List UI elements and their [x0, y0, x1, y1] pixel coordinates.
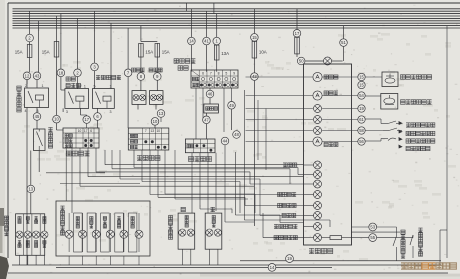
wire node47 down — [205, 124, 207, 139]
svg-text:17: 17 — [84, 129, 88, 133]
relay K2 box — [65, 89, 89, 109]
node 17 — [83, 116, 91, 124]
wire node45 to fog switch — [36, 121, 38, 130]
svg-text:50: 50 — [299, 59, 304, 64]
node 19 on bus — [286, 255, 294, 263]
svg-text:10: 10 — [78, 129, 82, 133]
label temp gauge — [324, 142, 338, 146]
fog switch S1 contact — [37, 129, 43, 151]
label brake fluid switch — [406, 139, 435, 143]
label left fog lamp vertical — [4, 216, 8, 236]
label fog relay vertical — [17, 86, 21, 112]
svg-text:1: 1 — [84, 84, 86, 88]
node 14 on bus — [268, 264, 276, 272]
svg-text:51: 51 — [341, 40, 346, 45]
wires front lamps to bus — [69, 256, 139, 265]
label combination meter — [309, 248, 333, 253]
node 6 — [94, 113, 102, 121]
hazard table wires down — [196, 88, 232, 139]
wire fuse F1 drop — [29, 11, 31, 44]
label F4 15A — [162, 50, 170, 55]
headlamp HL2 box — [150, 91, 164, 105]
label headlamp relay1 — [96, 75, 121, 80]
node 53 — [369, 223, 377, 231]
headlamp HL1 box — [132, 91, 146, 105]
svg-text:19: 19 — [359, 106, 364, 111]
svg-text:15: 15 — [252, 35, 257, 40]
fuse F1 15A — [27, 44, 32, 58]
wire node50 to lamp — [305, 60, 323, 62]
wire K1 pin4 down-left — [26, 108, 28, 266]
svg-text:48: 48 — [234, 132, 239, 137]
svg-text:45: 45 — [35, 114, 40, 119]
svg-text:15A: 15A — [162, 50, 170, 55]
svg-text:54: 54 — [359, 93, 364, 98]
wire right edge vertical — [440, 26, 447, 265]
node 41 — [203, 37, 211, 45]
relay K3 contact — [96, 92, 101, 104]
wire node2b to K2 — [77, 77, 79, 89]
wire F5 down — [216, 60, 218, 72]
label turn switch — [189, 157, 212, 162]
wire node8 to lamp — [140, 81, 142, 91]
corner smudge — [0, 225, 9, 279]
front lamps L5-L10 — [65, 213, 143, 252]
wire fuse F2 drop — [56, 16, 58, 42]
svg-text:10: 10 — [157, 129, 161, 133]
svg-text:7: 7 — [145, 129, 147, 133]
svg-text:18: 18 — [59, 70, 64, 75]
fog lamps L1-L4 — [16, 217, 48, 248]
wire node43 to relay pin1 — [36, 80, 38, 88]
node 7 — [124, 69, 132, 77]
node 46 — [206, 90, 214, 98]
fuse F4 15A — [155, 43, 160, 58]
wire F6 to node43b — [253, 58, 255, 73]
resistor R1 — [322, 236, 352, 240]
node 13 — [27, 185, 35, 193]
relay K2 pins — [66, 84, 86, 114]
node 55 — [369, 234, 377, 242]
node 1t — [213, 37, 221, 45]
wire node12 to relay pin2 — [26, 80, 28, 88]
label left headlamp — [132, 68, 145, 72]
wire 17 stub — [86, 114, 88, 117]
label hazard switch — [174, 59, 195, 71]
wire to node 13 — [30, 151, 32, 186]
bottom ground bus lines — [8, 261, 448, 273]
svg-text:13A: 13A — [221, 51, 229, 56]
wire 53 to level switch — [377, 227, 397, 236]
combination meter box — [304, 64, 352, 245]
label water level switch vertical — [418, 228, 422, 256]
wire bus to node51 — [343, 26, 345, 39]
svg-text:5: 5 — [94, 84, 96, 88]
svg-text:10: 10 — [153, 119, 158, 124]
label fog switch vertical — [48, 128, 52, 149]
wire bus to node 3 — [94, 11, 96, 63]
relay K3 box — [93, 89, 115, 109]
svg-text:10A: 10A — [259, 50, 267, 55]
wire node41 down — [206, 45, 208, 72]
wire bus to node17t — [296, 9, 298, 30]
label left turn ind — [278, 203, 297, 207]
wire node3 to K3 — [94, 71, 96, 89]
label F6 10A — [259, 50, 267, 55]
front lamp cluster outer box — [56, 201, 150, 256]
fuel sensor box — [381, 94, 398, 110]
label F2 15A — [42, 50, 50, 55]
label L header — [181, 207, 185, 211]
label right headlamp — [149, 68, 162, 72]
wires fog lamps to bus — [20, 255, 45, 265]
svg-text:6: 6 — [90, 129, 92, 133]
meter indicator lamps — [304, 161, 322, 242]
node 14t — [188, 37, 196, 45]
wire F3 to node8 — [140, 57, 142, 73]
node 10 — [53, 115, 61, 123]
wire HL1 down — [137, 104, 139, 109]
label water level ind — [274, 224, 297, 228]
node 9 — [154, 73, 162, 81]
light switch S2 contact table — [63, 128, 99, 148]
label water temp sensor — [406, 146, 430, 150]
svg-text:56: 56 — [359, 139, 364, 144]
svg-text:2: 2 — [25, 84, 27, 88]
wire node9 to lamp — [156, 81, 158, 91]
wire bus to fuse F3 F4 tee — [141, 26, 157, 42]
wire 55 to water switch — [377, 235, 413, 238]
wire bus to K3 pin1 — [110, 23, 112, 88]
label fuel gauge — [324, 91, 338, 95]
svg-text:41: 41 — [204, 39, 209, 44]
wires turn lamps to bus — [182, 249, 218, 265]
label front lamps vertical — [60, 206, 64, 235]
svg-text:47: 47 — [204, 117, 209, 122]
node 43b — [251, 73, 259, 81]
svg-text:17: 17 — [84, 117, 89, 122]
relay K2 coil — [76, 96, 84, 108]
svg-text:2: 2 — [79, 84, 81, 88]
node 2b — [74, 69, 82, 77]
label odometer sensor — [401, 75, 432, 80]
node 50 — [297, 57, 305, 65]
svg-text:15A: 15A — [42, 50, 50, 55]
fuse F2 15A — [54, 41, 59, 58]
wire F4 to node9 — [156, 57, 158, 73]
svg-text:15: 15 — [359, 74, 364, 79]
wire lamp53 — [322, 226, 369, 229]
wire lamp55 — [352, 237, 369, 239]
relay K2 bottom stubs — [63, 108, 87, 115]
wire node51 down — [343, 47, 345, 61]
top supply bus lines — [13, 9, 460, 28]
relay K1 coil — [36, 95, 44, 108]
node 48 — [233, 131, 241, 139]
wire bus to node 18 — [60, 14, 62, 69]
svg-text:12: 12 — [25, 73, 30, 78]
fuse F5 13A — [214, 45, 219, 61]
interior lamp — [324, 57, 332, 65]
left turn lamp box — [178, 213, 195, 249]
relay K1 switch contact — [28, 91, 33, 103]
node 3 — [91, 63, 99, 71]
wire bus to node 7 — [127, 28, 129, 69]
wire 17 to table — [86, 124, 88, 128]
turn signal switch S5 contact table — [185, 139, 215, 153]
wire node18 to relay K2 — [61, 77, 65, 90]
svg-text:3: 3 — [110, 110, 112, 114]
svg-text:15A: 15A — [145, 50, 153, 55]
svg-text:43: 43 — [252, 74, 257, 79]
wire node46 to flasher — [209, 98, 211, 104]
svg-text:8: 8 — [218, 72, 220, 76]
oil level switch — [393, 236, 397, 261]
node 51 — [340, 39, 348, 47]
wire node7 down — [127, 77, 129, 128]
wire flasher to node47 — [205, 113, 207, 116]
wire node14t down — [190, 45, 192, 72]
svg-text:14: 14 — [270, 265, 275, 270]
relay K3 coil — [103, 96, 111, 108]
wire hazard to node46 — [209, 88, 211, 90]
wire node43b long down — [253, 81, 255, 226]
label light switch — [67, 151, 90, 156]
wire F2 down — [57, 57, 64, 130]
svg-text:49: 49 — [229, 103, 234, 108]
fuse F7 — [295, 37, 300, 55]
label panel lamp — [283, 163, 297, 167]
svg-text:10: 10 — [54, 117, 59, 122]
wire pin54 to sensor2 — [365, 95, 381, 97]
node 45 — [33, 113, 41, 121]
wire bus to node 14t — [190, 9, 192, 37]
dimmer switch S3 contact table — [128, 128, 169, 150]
label small lamp relay — [66, 77, 82, 88]
node 10b — [151, 118, 159, 126]
wire mesh middle — [46, 60, 352, 238]
label reverse ind — [274, 236, 297, 240]
hazard switch S4 contact table — [191, 70, 238, 88]
fog lamp cluster box — [16, 214, 45, 256]
odometer sensor box — [382, 72, 398, 87]
svg-text:19: 19 — [287, 256, 292, 261]
fog cluster dividers — [24, 214, 41, 256]
svg-text:13: 13 — [151, 129, 155, 133]
label F1 15A — [15, 50, 23, 55]
svg-text:1: 1 — [110, 84, 112, 88]
svg-text:44: 44 — [223, 139, 228, 144]
wire bus to node15 — [253, 9, 255, 34]
fog switch S1 box — [34, 129, 46, 151]
node 15 — [251, 34, 259, 42]
svg-text:13: 13 — [159, 111, 164, 116]
wire node13 to fog lamps — [30, 193, 32, 214]
wire node6 down to light table — [97, 121, 99, 129]
relay K3 pins — [94, 84, 112, 114]
svg-text:43: 43 — [35, 73, 40, 78]
node 43 — [33, 72, 41, 80]
label R header — [211, 207, 215, 211]
wire lamp to node51 wire — [332, 60, 343, 62]
label park brake switch — [406, 131, 435, 135]
label high beam ind — [282, 213, 296, 217]
fuse F6 10A — [252, 41, 257, 59]
svg-text:7: 7 — [210, 72, 212, 76]
label right turn ind — [278, 192, 297, 196]
wire top loop — [187, 3, 214, 14]
svg-text:15A: 15A — [15, 50, 23, 55]
svg-text:5: 5 — [225, 72, 227, 76]
node 18 — [57, 69, 65, 77]
svg-text:3: 3 — [66, 110, 68, 114]
label fuel sensor — [401, 100, 432, 105]
svg-text:15: 15 — [359, 82, 364, 87]
wire K1 pin8 down — [36, 108, 38, 113]
right turn lamp box — [205, 213, 222, 249]
wire HL2 down — [156, 104, 161, 109]
wire bus to node 1t — [216, 14, 218, 37]
flasher U1 box — [204, 104, 219, 113]
wire fog switch down — [31, 151, 39, 173]
node 49 — [228, 102, 236, 110]
warning switches — [365, 119, 402, 141]
svg-text:55: 55 — [370, 235, 375, 240]
node 13b — [157, 110, 165, 118]
wire F7 to node50 — [297, 54, 301, 57]
svg-text:14: 14 — [189, 39, 194, 44]
node 17t — [293, 30, 301, 38]
node 44 — [221, 137, 229, 145]
node 8 — [137, 73, 145, 81]
svg-text:9: 9 — [233, 72, 235, 76]
wire node49 down — [231, 109, 233, 130]
label left front turn vertical — [168, 216, 172, 240]
wire bus drop to node 43 — [38, 21, 40, 72]
node 12 — [23, 72, 31, 80]
svg-text:17: 17 — [295, 31, 300, 36]
label odometer — [324, 75, 338, 79]
svg-text:1: 1 — [42, 84, 44, 88]
relay K1 pin labels — [25, 84, 44, 113]
water level switch — [410, 235, 413, 258]
watermark — [401, 263, 456, 269]
meter gauges and pins — [246, 72, 366, 146]
svg-text:58: 58 — [359, 128, 364, 133]
svg-text:1: 1 — [116, 76, 118, 80]
arrows to switch labels — [399, 121, 403, 149]
wire meter bottom to right — [352, 232, 401, 236]
wire bus to node 2b — [77, 18, 79, 68]
relay K2 contact — [68, 92, 73, 104]
wire pin15 to sensor1 — [365, 76, 382, 78]
label dimmer switch — [137, 156, 160, 161]
wire bus to node 41 — [206, 11, 208, 37]
wire F1 to relay — [27, 58, 30, 84]
label F5 13A — [221, 51, 229, 56]
label F3 15A — [145, 50, 153, 55]
svg-text:53: 53 — [370, 225, 375, 230]
label oil pressure switch — [406, 123, 435, 127]
label oil level switch vertical — [401, 230, 405, 258]
node 47 — [203, 116, 211, 124]
svg-text:4: 4 — [25, 109, 27, 113]
svg-text:13: 13 — [28, 187, 33, 192]
fuse F3 15A — [139, 43, 144, 58]
wire node10b down — [155, 117, 161, 128]
wire K3 down to node6 — [97, 108, 99, 112]
svg-text:46: 46 — [208, 92, 213, 97]
svg-text:6: 6 — [202, 72, 204, 76]
node 2 — [26, 34, 34, 42]
relay K1 box — [25, 88, 49, 108]
svg-text:61: 61 — [359, 117, 364, 122]
